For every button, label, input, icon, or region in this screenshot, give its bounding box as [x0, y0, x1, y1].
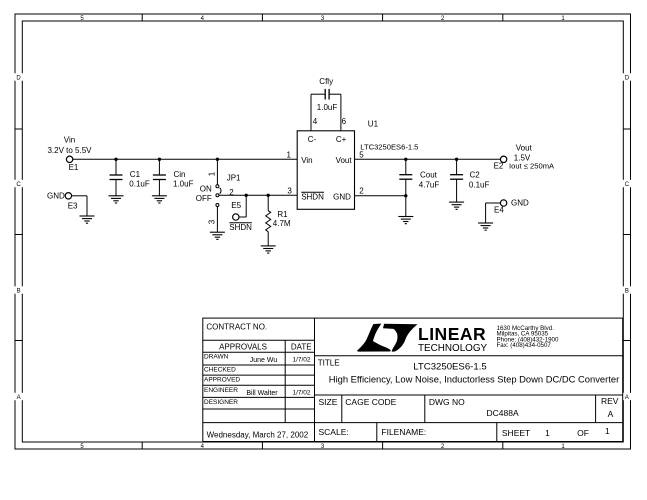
node E5 junction — [245, 194, 248, 197]
terminal E2 — [494, 144, 555, 171]
svg-text:E4: E4 — [494, 206, 504, 215]
svg-text:TECHNOLOGY: TECHNOLOGY — [418, 343, 488, 354]
svg-text:SHDN: SHDN — [229, 223, 252, 232]
svg-text:C+: C+ — [336, 135, 347, 144]
capacitor Cfly — [311, 77, 341, 112]
svg-text:C2: C2 — [470, 170, 481, 179]
svg-text:SIZE: SIZE — [319, 397, 338, 407]
svg-text:3: 3 — [208, 219, 217, 224]
ground (Cin) — [152, 196, 167, 203]
svg-text:C: C — [625, 182, 630, 188]
terminal E1 — [47, 136, 92, 172]
svg-text:E5: E5 — [231, 201, 241, 210]
svg-text:LINEAR: LINEAR — [418, 324, 486, 344]
svg-text:D: D — [16, 75, 21, 81]
node JP1 junction — [216, 158, 219, 161]
svg-text:APPROVALS: APPROVALS — [219, 343, 267, 352]
svg-text:SHEET: SHEET — [502, 428, 530, 438]
node R1 junction — [267, 194, 270, 197]
svg-text:A: A — [17, 395, 21, 401]
op IC U1 LTC3250ES6-1.5 — [297, 119, 418, 209]
svg-text:4.7uF: 4.7uF — [419, 180, 440, 189]
title block left column text — [204, 322, 312, 439]
wire Vout rail — [355, 158, 501, 160]
svg-text:LTC3250ES6-1.5: LTC3250ES6-1.5 — [360, 143, 418, 152]
node C2 junction — [455, 158, 458, 161]
svg-text:1: 1 — [605, 426, 610, 436]
svg-text:R1: R1 — [277, 210, 288, 219]
capacitor C1 — [110, 159, 150, 196]
title block title text — [318, 358, 619, 384]
title block frame — [203, 318, 623, 441]
svg-text:0.1uF: 0.1uF — [469, 180, 490, 189]
svg-text:B: B — [625, 288, 629, 294]
svg-text:E2: E2 — [494, 162, 504, 171]
svg-text:June Wu: June Wu — [250, 357, 278, 364]
svg-text:SHDN: SHDN — [301, 192, 324, 201]
svg-text:3.2V to 5.5V: 3.2V to 5.5V — [47, 146, 92, 155]
svg-text:DC488A: DC488A — [487, 408, 519, 418]
svg-text:APPROVED: APPROVED — [204, 377, 240, 384]
svg-text:4: 4 — [313, 117, 318, 126]
node Cout junction — [404, 158, 407, 161]
svg-text:6: 6 — [342, 117, 347, 126]
wire SHDN rail — [219, 194, 297, 196]
wire GND pin rail — [355, 195, 406, 197]
svg-text:CONTRACT NO.: CONTRACT NO. — [206, 322, 267, 331]
svg-text:2: 2 — [359, 187, 364, 196]
svg-text:ENGINEER: ENGINEER — [204, 387, 238, 394]
svg-text:OF: OF — [577, 428, 589, 438]
svg-text:4.7M: 4.7M — [273, 219, 291, 228]
svg-text:GND: GND — [333, 192, 351, 201]
svg-text:CHECKED: CHECKED — [204, 367, 236, 374]
svg-text:ON: ON — [200, 184, 212, 193]
node C1 junction — [114, 158, 117, 161]
svg-text:A: A — [608, 409, 614, 419]
ground (E4) — [478, 223, 493, 230]
svg-text:B: B — [17, 288, 21, 294]
svg-text:0.1uF: 0.1uF — [129, 180, 150, 189]
pin 6 — [341, 94, 347, 131]
svg-text:Cout: Cout — [420, 170, 438, 179]
svg-text:1.0uF: 1.0uF — [317, 103, 338, 112]
svg-text:A: A — [625, 395, 629, 401]
ground (R1) — [261, 246, 276, 253]
ground (C1) — [109, 196, 124, 203]
svg-text:Vin: Vin — [64, 136, 75, 145]
svg-text:Vout: Vout — [516, 144, 533, 153]
svg-text:Cin: Cin — [174, 170, 186, 179]
terminal E5 — [229, 195, 252, 232]
svg-text:D: D — [625, 75, 630, 81]
svg-text:SCALE:: SCALE: — [319, 427, 349, 437]
ground (Cout) — [398, 217, 413, 224]
svg-text:LTC3250ES6-1.5: LTC3250ES6-1.5 — [413, 362, 486, 373]
svg-text:1/7/02: 1/7/02 — [292, 357, 310, 364]
terminal E4 — [486, 199, 529, 224]
svg-text:DESIGNER: DESIGNER — [204, 399, 238, 406]
terminal E3 — [47, 191, 87, 216]
svg-text:Fax: (408)434-0507: Fax: (408)434-0507 — [497, 342, 552, 349]
svg-text:Iout ≤ 250mA: Iout ≤ 250mA — [509, 161, 555, 170]
svg-text:High Efficiency, Low Noise, In: High Efficiency, Low Noise, Inductorless… — [329, 373, 619, 384]
pin 4 — [311, 94, 318, 131]
title block lower cells text — [319, 396, 619, 438]
svg-text:C1: C1 — [130, 170, 141, 179]
svg-text:Vin: Vin — [301, 156, 312, 165]
svg-text:1: 1 — [545, 428, 550, 438]
svg-text:Vout: Vout — [336, 156, 353, 165]
svg-text:1: 1 — [286, 151, 291, 160]
svg-text:OFF: OFF — [196, 194, 212, 203]
capacitor Cin — [153, 159, 194, 196]
svg-text:Bill Walter: Bill Walter — [246, 390, 278, 397]
svg-text:1: 1 — [208, 171, 217, 176]
svg-text:Wednesday, March 27, 2002: Wednesday, March 27, 2002 — [207, 431, 309, 440]
svg-text:GND: GND — [47, 191, 65, 200]
capacitor C2 — [450, 159, 489, 202]
ground (C2) — [449, 202, 464, 209]
svg-text:Cfly: Cfly — [319, 77, 333, 86]
svg-text:3: 3 — [287, 187, 292, 196]
svg-text:DATE: DATE — [291, 343, 312, 352]
svg-text:JP1: JP1 — [227, 174, 241, 183]
svg-text:1.0uF: 1.0uF — [173, 180, 194, 189]
svg-text:GND: GND — [511, 199, 529, 208]
wire Vin rail — [73, 158, 297, 160]
jumper JP1 — [208, 159, 241, 232]
svg-text:U1: U1 — [368, 119, 379, 128]
resistor R1 — [266, 195, 291, 246]
node Cin junction — [158, 158, 161, 161]
svg-text:1/7/02: 1/7/02 — [292, 390, 310, 397]
node Cout-GND junction — [404, 194, 407, 197]
svg-text:FILENAME:: FILENAME: — [381, 427, 426, 437]
svg-text:CAGE CODE: CAGE CODE — [345, 397, 396, 407]
svg-text:TITLE: TITLE — [318, 358, 340, 367]
svg-text:E1: E1 — [69, 163, 79, 172]
ground (JP1) — [210, 232, 225, 239]
ground (E3) — [80, 216, 95, 223]
svg-text:DWG NO: DWG NO — [429, 397, 465, 407]
Linear Technology logo — [357, 324, 559, 354]
svg-text:E3: E3 — [68, 202, 78, 211]
svg-text:5: 5 — [359, 151, 364, 160]
svg-text:DRAWN: DRAWN — [204, 354, 229, 361]
svg-text:C-: C- — [308, 135, 317, 144]
capacitor Cout — [399, 159, 439, 216]
svg-text:C: C — [16, 182, 21, 188]
svg-text:REV: REV — [601, 396, 619, 406]
